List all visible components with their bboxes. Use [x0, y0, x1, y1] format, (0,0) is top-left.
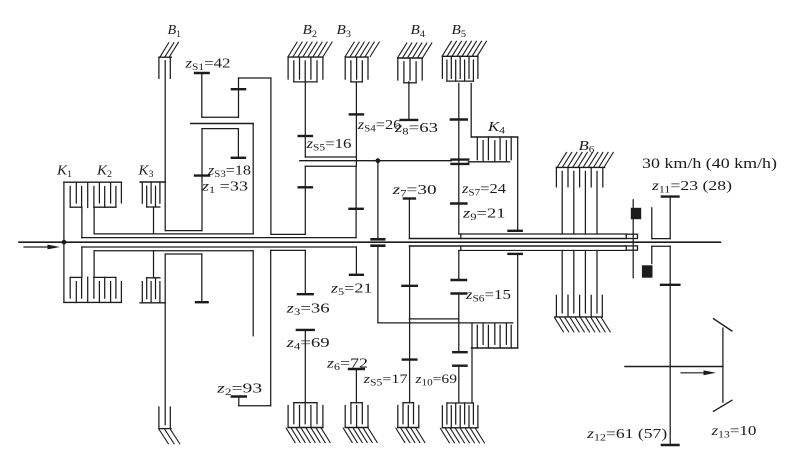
brake B1 band	[159, 57, 170, 78]
planet gear set1	[238, 78, 240, 117]
brake B1 bottom band	[159, 407, 171, 429]
gear z3 cap	[298, 293, 313, 295]
frame right wall bottom	[201, 254, 203, 302]
svg-text:z10=69: z10=69	[414, 371, 457, 389]
sun caps right	[452, 160, 469, 164]
brake B6 bottom disc shafts	[562, 251, 597, 313]
gear z2 cap	[232, 395, 246, 397]
set2 drum top	[305, 165, 356, 167]
gear z1 mesh tick	[195, 174, 209, 176]
brake B3 shaft	[355, 82, 357, 166]
carrier set3 bottom bar	[378, 322, 513, 324]
svg-text:zS5=16: zS5=16	[305, 136, 351, 154]
svg-text:K2: K2	[96, 163, 112, 181]
output axis	[625, 366, 723, 368]
clutch K3 plates	[142, 182, 160, 207]
brake B1 bottom ground hatch	[159, 429, 180, 444]
clutch K4 bottom drum wall	[517, 254, 519, 348]
bearing box lower	[626, 246, 637, 250]
centre sun cap upper	[372, 238, 385, 241]
K1 output tube lower	[82, 246, 357, 248]
ring rim right lower	[459, 249, 627, 251]
sleeve upper	[652, 208, 670, 239]
input arrow	[24, 245, 60, 250]
svg-text:z3=36: z3=36	[285, 301, 329, 319]
svg-text:K4: K4	[487, 119, 506, 137]
set2 drum right mesh tick	[350, 208, 363, 210]
ring to rect link	[271, 233, 305, 235]
gear z2 shaft	[238, 397, 240, 406]
clutch K3 hub drop	[153, 207, 155, 234]
clutch K3 bottom bar	[140, 302, 165, 304]
svg-text:z7=30: z7=30	[391, 182, 437, 200]
gear zS4 tick	[350, 113, 363, 115]
gear z5 cap	[350, 274, 363, 276]
gear zS6 upper cap	[452, 279, 466, 281]
gear z10 cap upper	[453, 351, 466, 353]
set1 ring top link	[239, 77, 271, 79]
centre sun cap lower	[372, 244, 385, 247]
main axis shaft	[19, 241, 720, 243]
frame cup top	[165, 230, 201, 232]
gear z10 lower shaft	[458, 366, 460, 403]
gear z12 end cap	[662, 444, 679, 446]
gear z9 tick	[451, 202, 466, 204]
input junction node	[62, 240, 67, 245]
clutch K1 bottom plates	[70, 277, 88, 302]
shift block upper	[631, 208, 641, 219]
svg-text:z4=69: z4=69	[285, 335, 329, 353]
set2 drum left mesh tick	[299, 186, 312, 188]
svg-text:z2=93: z2=93	[216, 381, 263, 399]
clutch K2 hub drop	[93, 207, 95, 234]
brake B5 bottom drum	[442, 427, 478, 429]
bearing box upper	[626, 234, 637, 238]
brake B2	[288, 56, 323, 58]
clutch K4 plates	[477, 137, 511, 162]
set2 drum right wall	[355, 166, 357, 237]
svg-text:zS1=42: zS1=42	[184, 56, 230, 74]
gear z6 cap	[349, 368, 364, 370]
set1 sun-planet link	[202, 116, 239, 118]
clutch K4 drum cap	[509, 230, 522, 232]
K1 output tube upper	[82, 237, 356, 239]
brake B5 shaft	[458, 84, 460, 234]
gear z7 cap	[404, 197, 415, 199]
gear z7 tube	[409, 234, 626, 239]
svg-text:z11=23 (28): z11=23 (28)	[651, 178, 732, 196]
gear zS3 shaft	[237, 129, 239, 158]
gear z10 shaft	[409, 246, 411, 403]
gear z8 cap	[401, 119, 417, 121]
gear zS7 tick upper	[451, 118, 467, 120]
svg-text:z12=61 (57): z12=61 (57)	[586, 426, 667, 444]
centre shaft upper	[377, 161, 379, 239]
clutch K4 drum wall	[517, 137, 519, 231]
ring gear z2 wall bottom	[270, 250, 272, 405]
brake B2 shaft	[304, 82, 306, 157]
clutch K2 bottom plates	[94, 277, 122, 302]
brake B5	[442, 55, 478, 57]
clutch K4 bottom left wall	[471, 323, 473, 403]
gear z12 mesh tick	[661, 284, 679, 286]
brake B4 shaft	[408, 82, 410, 120]
svg-text:z9=21: z9=21	[462, 205, 506, 223]
carrier drop bottom	[252, 251, 254, 336]
brake B5 right leg	[470, 84, 472, 138]
gear z10 cap lower	[453, 365, 466, 367]
svg-text:z13=10: z13=10	[710, 423, 756, 441]
gear z7 shaft	[408, 199, 410, 239]
sun gear zS1 shaft	[201, 73, 203, 117]
K2 output tube upper	[94, 233, 253, 235]
shift rod	[632, 200, 634, 278]
brake B4	[398, 57, 422, 59]
gear z4 shaft	[304, 330, 306, 403]
gear cap bottom left	[196, 301, 208, 303]
K2 output tube lower	[94, 250, 253, 252]
brake B1 drum rod / frame left wall	[164, 61, 166, 231]
carrier set1 bar	[191, 123, 254, 125]
brake B1 ground hatch	[159, 42, 179, 57]
gear zS3 cap	[232, 157, 245, 159]
svg-text:B3: B3	[337, 22, 352, 40]
brake B6 bottom	[555, 295, 611, 332]
shift block lower	[642, 265, 653, 277]
ring gear z2 wall	[270, 78, 272, 234]
carrier set2 node	[376, 158, 381, 163]
set2 drum left wall	[304, 166, 306, 234]
svg-text:B6: B6	[579, 138, 595, 156]
svg-text:z8=63: z8=63	[394, 120, 438, 138]
frame left wall bottom	[164, 254, 166, 425]
clutch K4 bottom drum cap	[509, 253, 522, 255]
clutch K1 bottom hub riser	[81, 247, 83, 277]
gear z5 shaft	[355, 247, 357, 275]
svg-text:B5: B5	[452, 22, 467, 40]
svg-text:B1: B1	[168, 22, 182, 40]
clutch K2 plates	[94, 182, 122, 207]
ring rim right upper	[459, 233, 627, 235]
gear zS6 upper shaft	[458, 251, 460, 280]
svg-text:B2: B2	[303, 22, 318, 40]
brake B4 bottom drum	[398, 427, 419, 429]
svg-text:K3: K3	[137, 163, 153, 181]
clutch K3 bottom hub riser	[153, 251, 155, 278]
svg-text:z5=21: z5=21	[330, 281, 373, 299]
brake B3	[345, 56, 368, 58]
gear zS6 lower cap	[452, 292, 466, 294]
centre shaft lower	[377, 246, 379, 323]
svg-text:B4: B4	[411, 22, 426, 40]
gear z13 bevel	[714, 319, 732, 412]
svg-text:zS3=18: zS3=18	[207, 163, 251, 181]
carrier set1 U top	[202, 128, 238, 130]
clutch K4 bottom bar	[472, 347, 518, 349]
clutch K1 K2 bottom bar	[64, 301, 122, 303]
svg-text:zS7=24: zS7=24	[461, 181, 506, 199]
gear zS5 mesh tick	[403, 358, 417, 360]
planet mesh tick set1	[232, 88, 245, 90]
brake B3 bottom drum	[345, 427, 368, 429]
svg-text:K1: K1	[56, 163, 72, 181]
ring to rect link bottom	[271, 249, 306, 251]
cup A bar	[409, 318, 458, 320]
clutch K4 top bar	[471, 136, 518, 138]
clutch K2 bottom hub riser	[93, 251, 95, 278]
clutch K4 hub bar	[468, 161, 509, 163]
carrier set2 bar	[300, 160, 452, 162]
brake B2 bottom drum	[288, 427, 323, 429]
gear z12 shaft	[669, 246, 671, 445]
svg-text:z6=72: z6=72	[326, 356, 368, 374]
gear z2 link	[239, 405, 271, 407]
clutch K3 bottom plates	[142, 278, 160, 303]
clutch K1 plates	[70, 182, 88, 207]
gear z11 cap	[662, 195, 679, 197]
gear z10 mesh tick upper	[402, 285, 416, 287]
sun gear zS1 cap	[195, 72, 209, 74]
clutch K1 drum wall	[63, 182, 65, 302]
gear z3 shaft	[304, 250, 306, 294]
svg-text:30 km/h (40 km/h): 30 km/h (40 km/h)	[642, 156, 777, 172]
svg-text:z1 =33: z1 =33	[201, 179, 248, 197]
output arrow	[681, 370, 716, 375]
frame cup bottom	[165, 253, 201, 255]
clutch K1 hub drop	[81, 207, 83, 237]
gear z4 cap	[297, 329, 314, 331]
clutch K3 top bar	[140, 181, 165, 183]
gear zS5 tick	[299, 135, 312, 137]
brake B6	[556, 152, 613, 187]
sleeve lower	[652, 246, 670, 263]
gear z1 shaft	[201, 129, 203, 231]
gear z11 shaft	[669, 197, 671, 239]
svg-text:zS6=15: zS6=15	[465, 287, 511, 305]
gear z6 shaft	[355, 369, 357, 403]
svg-text:zS5=17: zS5=17	[362, 371, 408, 389]
clutch K1 K2 top bar	[64, 181, 122, 183]
brake B6 disc shafts	[562, 171, 597, 234]
clutch K4 bottom plates	[477, 323, 511, 348]
carrier set1 drop	[252, 124, 254, 234]
gear zS6 lower shaft	[458, 294, 460, 353]
brake B2 link bar	[305, 156, 356, 158]
gear z7 tube mirror	[409, 246, 626, 250]
